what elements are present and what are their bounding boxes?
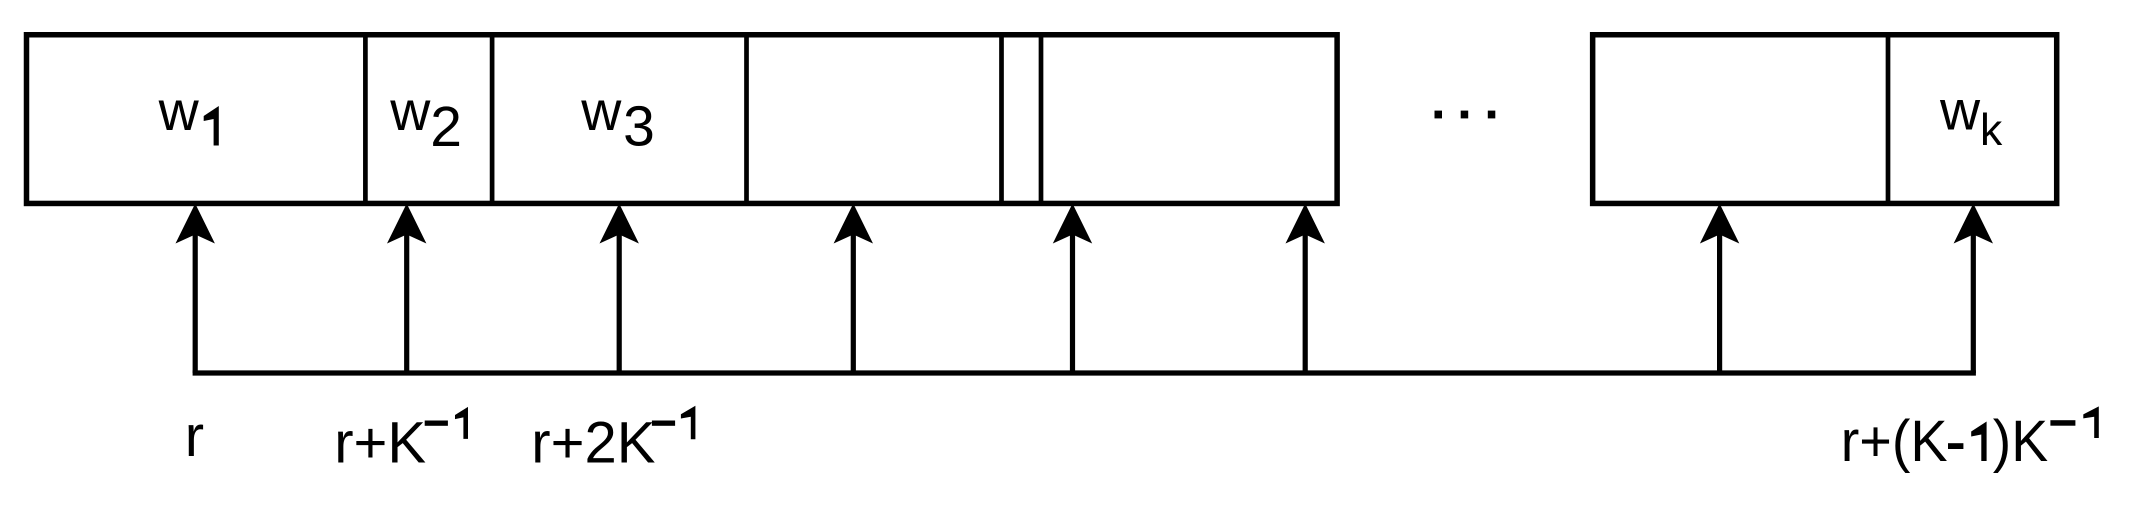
label wk — [1939, 80, 2003, 156]
label r+K^-1 — [334, 407, 468, 476]
ellipsis dots — [1435, 111, 1496, 119]
svg-text:3: 3 — [623, 95, 655, 159]
arrow 1 — [176, 204, 215, 374]
svg-text:w: w — [158, 80, 200, 142]
svg-text:r+K: r+K — [334, 411, 426, 476]
svg-text:2: 2 — [430, 95, 462, 159]
arrow 7 — [1700, 204, 1739, 374]
svg-text:w: w — [389, 80, 431, 142]
label w3 — [580, 80, 655, 159]
svg-text:r: r — [185, 404, 204, 469]
label w1 — [158, 80, 219, 146]
svg-text:)K: )K — [1993, 409, 2049, 474]
label w2 — [389, 80, 462, 159]
divider w3|w4 — [744, 34, 749, 204]
svg-text:r+(K: r+(K — [1841, 409, 1948, 474]
svg-text:r+2K: r+2K — [531, 410, 655, 475]
svg-text:w: w — [580, 80, 622, 142]
divider narrow cell right — [1039, 34, 1044, 204]
arrow 5 — [1053, 204, 1092, 374]
label r+2K^-1 — [531, 406, 695, 476]
arrow 4 — [834, 204, 873, 374]
label r+(K-1)K^-1 — [1841, 406, 2099, 474]
arrow 8 — [1954, 204, 1993, 374]
arrow 6 — [1286, 204, 1325, 374]
divider narrow cell left — [999, 34, 1004, 204]
divider w2|w3 — [490, 34, 495, 204]
arrow 2 — [387, 204, 426, 374]
baseline wire — [193, 370, 1976, 375]
svg-text:k: k — [1980, 106, 2003, 155]
svg-text:w: w — [1939, 80, 1981, 142]
box group left: outer rectangle — [27, 35, 1338, 204]
box group right: outer rectangle — [1593, 35, 2057, 204]
divider w1|w2 — [363, 34, 368, 204]
arrow 3 — [600, 204, 639, 374]
divider before wk cell — [1886, 34, 1891, 204]
